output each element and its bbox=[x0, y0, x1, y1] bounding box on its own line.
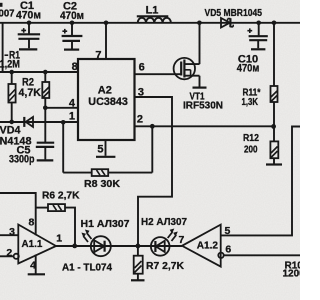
node R1 top bbox=[9, 70, 14, 75]
IC A2 UC3843 bbox=[78, 59, 135, 140]
wire pin2 to divider bbox=[135, 125, 274, 127]
svg-text:L1: L1 bbox=[146, 5, 159, 17]
resistor R7 bbox=[134, 246, 143, 280]
ground A1.1 bbox=[28, 273, 45, 275]
svg-text:1: 1 bbox=[56, 233, 62, 245]
ground R7 bbox=[131, 279, 145, 281]
wire R8 row bbox=[63, 122, 152, 172]
pin 4 lead A1.1 bbox=[35, 255, 37, 274]
wire pin 6 output bbox=[224, 254, 300, 256]
svg-text:VD5 MBR1045: VD5 MBR1045 bbox=[205, 7, 263, 19]
wire top rail bbox=[0, 22, 300, 24]
node drain top bbox=[197, 21, 202, 26]
wire A1.1 supply from edge bbox=[0, 193, 36, 235]
svg-text:470м: 470м bbox=[60, 10, 84, 22]
capacitor C10 bbox=[247, 23, 267, 50]
svg-text:6: 6 bbox=[139, 61, 145, 73]
LED H1 bbox=[81, 230, 110, 257]
dash before R1 bbox=[5, 54, 9, 56]
resistor R1 bbox=[8, 72, 15, 122]
svg-text:3300p: 3300p bbox=[9, 153, 35, 165]
node C2 top bbox=[70, 21, 75, 26]
node C10 top bbox=[256, 21, 261, 26]
LED H2 bbox=[151, 229, 178, 256]
svg-text:200: 200 bbox=[244, 144, 258, 155]
svg-text:1200: 1200 bbox=[283, 269, 301, 280]
svg-text:3: 3 bbox=[9, 226, 15, 238]
svg-text:R12: R12 bbox=[243, 133, 259, 144]
svg-text:470м: 470м bbox=[16, 9, 41, 21]
text fragment top left bbox=[0, 3, 3, 7]
node R11 top bbox=[272, 21, 277, 26]
svg-text:R8 30K: R8 30K bbox=[84, 178, 120, 190]
inductor L1 bbox=[137, 16, 171, 23]
svg-text:IRF530N: IRF530N bbox=[183, 101, 223, 112]
transistor VT1 bbox=[174, 23, 200, 87]
wire R11 feed bbox=[273, 23, 275, 86]
node R6 output bbox=[72, 244, 77, 249]
svg-text:007: 007 bbox=[0, 8, 15, 20]
wire output row A1.1 to A1.2 bbox=[56, 245, 182, 247]
wire R11 to node bbox=[273, 102, 275, 126]
resistor R2 bbox=[42, 72, 49, 143]
svg-text:8: 8 bbox=[72, 61, 78, 73]
svg-text:5: 5 bbox=[97, 144, 103, 156]
wire pin 1 / VD4 row bbox=[0, 121, 78, 123]
pin 5 lead bbox=[105, 140, 107, 156]
wire pin 3 jog to LED node bbox=[135, 97, 173, 246]
capacitor C5 bbox=[36, 143, 54, 161]
wire pin2 down bbox=[151, 126, 153, 172]
node R2 pin4 bbox=[43, 106, 48, 111]
diode VD5 bbox=[221, 18, 233, 28]
svg-text:1,2М: 1,2М bbox=[0, 59, 20, 71]
svg-text:4: 4 bbox=[30, 259, 36, 271]
node H2/R7 bbox=[136, 244, 141, 249]
diode VD4 bbox=[24, 117, 33, 127]
wire pin 6 to gate bbox=[135, 73, 181, 75]
node divider bbox=[271, 124, 276, 129]
svg-text:6: 6 bbox=[225, 244, 231, 256]
capacitor C1 bbox=[18, 23, 40, 50]
op-amp A1.1 bbox=[18, 225, 56, 264]
bubble A1.2 inverting bbox=[218, 253, 223, 258]
ground pin 5 bbox=[96, 156, 115, 158]
resistor R8 bbox=[92, 169, 109, 176]
wire pin 5 to divider sense bbox=[221, 127, 300, 236]
bubble A1.1 inverting bbox=[14, 254, 19, 259]
wire pin 7 lead bbox=[105, 23, 107, 59]
op-amp A1.2 bbox=[182, 225, 221, 267]
node pin7 top bbox=[104, 21, 109, 26]
wire pin 2 input bbox=[0, 255, 14, 257]
svg-text:A1.1: A1.1 bbox=[22, 238, 43, 250]
resistor R6 bbox=[36, 204, 75, 246]
wire pin 4 bbox=[45, 107, 78, 109]
svg-text:2: 2 bbox=[137, 114, 143, 126]
resistor R12 bbox=[270, 126, 278, 164]
ground R12 bbox=[266, 163, 282, 165]
wire pin 3 input bbox=[0, 234, 18, 236]
svg-text:8: 8 bbox=[28, 217, 34, 229]
node R2 top bbox=[43, 70, 48, 75]
svg-text:R7 2,7K: R7 2,7K bbox=[146, 260, 184, 272]
node C5 branch bbox=[61, 120, 66, 125]
svg-text:Н2 АЛ307: Н2 АЛ307 bbox=[141, 216, 187, 228]
svg-text:R6 2,7K: R6 2,7K bbox=[42, 189, 80, 201]
svg-text:4,7K: 4,7K bbox=[19, 87, 42, 99]
node pin2 branch bbox=[150, 124, 155, 129]
svg-text:Н1 АЛ307: Н1 АЛ307 bbox=[81, 218, 130, 230]
svg-text:1: 1 bbox=[69, 111, 75, 123]
svg-text:1,3K: 1,3K bbox=[242, 97, 259, 108]
svg-text:470м: 470м bbox=[237, 62, 259, 74]
svg-text:A1.2: A1.2 bbox=[197, 239, 218, 251]
node R1 bottom bbox=[9, 120, 14, 125]
svg-text:UC3843: UC3843 bbox=[88, 96, 128, 108]
svg-text:A1 - TL074: A1 - TL074 bbox=[62, 263, 112, 274]
wire second rail to pin 8 bbox=[0, 71, 78, 73]
node C1 top bbox=[27, 21, 32, 26]
capacitor C2 bbox=[62, 23, 83, 50]
wire left vertical bbox=[2, 23, 4, 72]
ground VT1 source bbox=[193, 86, 207, 88]
svg-text:A2: A2 bbox=[98, 85, 112, 97]
resistor R11 bbox=[271, 86, 278, 102]
